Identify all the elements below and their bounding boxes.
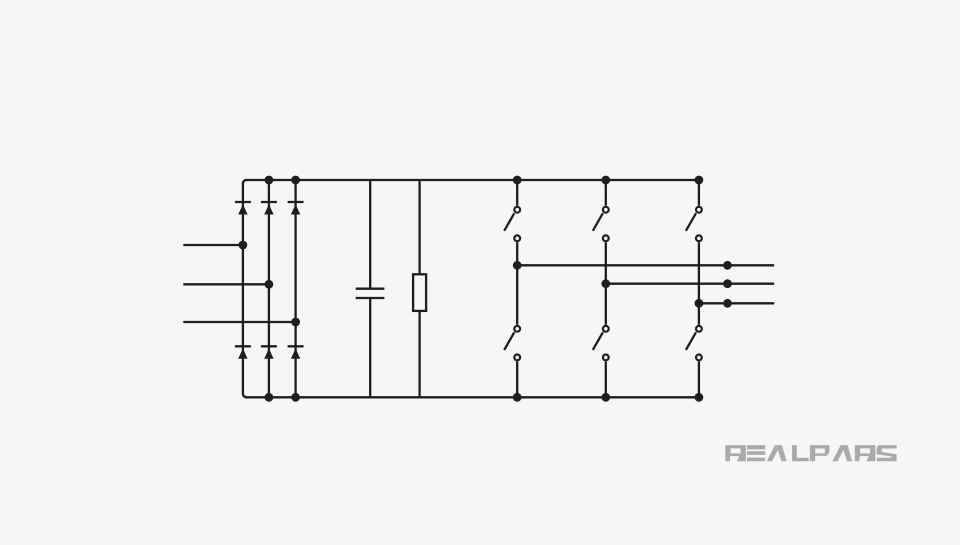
wire: AC input phase L2	[183, 283, 269, 285]
resistor R1 (DC bus)	[413, 180, 426, 397]
node: top rail / inverter leg 3	[695, 176, 704, 185]
wire: top DC bus rail	[245, 179, 699, 181]
diode D5 (bottom, leg 2)	[261, 346, 277, 359]
letter A	[767, 445, 787, 461]
node: top rail / inverter leg 2	[601, 176, 610, 185]
letter R (2nd)	[855, 445, 876, 461]
wire: rectifier leg 2 vertical	[268, 180, 270, 397]
diode D1 (top, leg 1)	[235, 202, 251, 215]
node: L2 junction on leg 2	[265, 280, 274, 289]
switch S4 (inverter leg 1, lower)	[504, 326, 520, 397]
wire: output phase V	[606, 283, 774, 285]
switch S6 (inverter leg 3, lower)	[686, 326, 702, 397]
node: bottom rail / inverter leg 2	[601, 393, 610, 402]
RealPars logo wordmark	[725, 445, 896, 461]
wire: AC input phase L3	[183, 321, 295, 323]
node: L3 junction on leg 3	[291, 318, 300, 327]
diode D2 (top, leg 2)	[261, 202, 277, 215]
wire: rectifier leg 1 vertical (rounded corners to bus rails)	[243, 180, 247, 397]
letter R	[725, 445, 746, 461]
capacitor C1 (DC bus)	[356, 180, 385, 397]
node: U output tap	[723, 261, 732, 270]
wire: rectifier leg 3 vertical	[294, 180, 296, 397]
node: W output tap	[723, 299, 732, 308]
letter S	[877, 445, 897, 461]
letter A (2nd)	[832, 445, 852, 461]
node: top rail / leg 3	[291, 176, 300, 185]
node: top rail / inverter leg 1	[513, 176, 522, 185]
switch S1 (inverter leg 1, upper)	[504, 180, 520, 325]
switch S2 (inverter leg 2, upper)	[593, 180, 609, 325]
switch S5 (inverter leg 2, lower)	[593, 326, 609, 397]
diode D6 (bottom, leg 3)	[288, 346, 304, 359]
diode D3 (top, leg 3)	[288, 202, 304, 215]
node: bottom rail / leg 3	[291, 393, 300, 402]
letter E	[747, 445, 765, 461]
wire: AC input phase L1	[183, 244, 243, 246]
letter L	[792, 445, 809, 461]
node: W junction on inverter leg 3	[695, 299, 704, 308]
node: top rail / leg 2	[265, 176, 274, 185]
node: U junction on inverter leg 1	[513, 261, 522, 270]
diode D4 (bottom, leg 1)	[235, 346, 251, 359]
letter P	[810, 445, 830, 461]
node: V output tap	[723, 279, 732, 288]
node: bottom rail / inverter leg 1	[513, 393, 522, 402]
node: V junction on inverter leg 2	[601, 279, 610, 288]
node: L1 junction on leg 1	[239, 241, 248, 250]
node: bottom rail / inverter leg 3	[695, 393, 704, 402]
wire: bottom DC bus rail	[245, 396, 699, 398]
switch S3 (inverter leg 3, upper)	[686, 180, 702, 325]
wire: output phase U	[517, 264, 774, 266]
node: bottom rail / leg 2	[265, 393, 274, 402]
wire: output phase W	[699, 302, 774, 304]
